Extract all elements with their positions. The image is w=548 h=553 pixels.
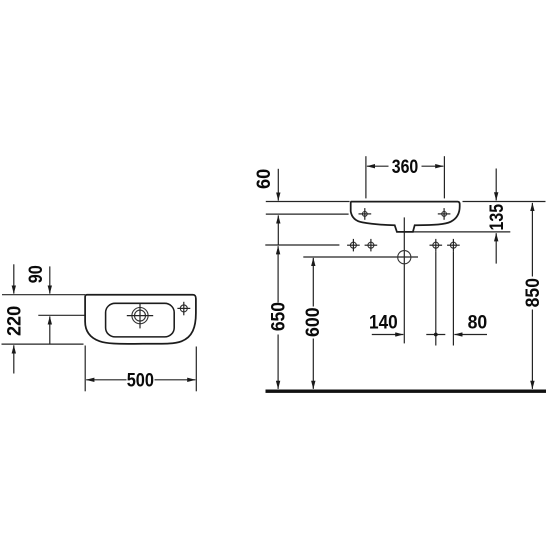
svg-text:850: 850 — [523, 278, 544, 307]
plan view side hole crosshair — [177, 302, 190, 316]
dim 140/80 joint dot — [434, 333, 438, 337]
label 220 — [4, 306, 25, 336]
front view: extension line at mounting hole level — [265, 244, 339, 246]
dim 140/80 joint stub — [426, 334, 445, 336]
dim 220 upper leg — [13, 264, 15, 293]
dim 500 right extension line — [195, 347, 197, 392]
label 135 — [487, 204, 508, 231]
dim 600 upper arrow — [312, 258, 314, 307]
dim 500 left arrow — [86, 379, 126, 381]
front view: extension line at drain level — [303, 256, 418, 258]
plan view inner basin — [106, 303, 175, 337]
dim 650 lower arrow — [277, 335, 279, 389]
svg-text:220: 220 — [4, 306, 25, 336]
dim 60 lower leg — [277, 215, 279, 244]
dim 850 upper arrow — [531, 203, 533, 277]
label 850 — [523, 278, 544, 307]
right hole pair extension line 2 — [452, 252, 454, 346]
svg-text:60: 60 — [254, 169, 275, 189]
dim 600 lower arrow — [312, 339, 314, 389]
dim 60 upper leg — [277, 169, 279, 201]
mounting hole B — [365, 239, 378, 252]
front view: extension line at overflow bottom level — [413, 231, 510, 233]
front view: extension line at deck level left — [266, 213, 349, 215]
dim 135 lower leg — [495, 233, 497, 263]
label 60 — [254, 169, 275, 189]
dim 850 lower arrow — [531, 310, 533, 389]
dim 90 upper leg — [49, 266, 51, 293]
svg-text:140: 140 — [369, 313, 398, 334]
mounting hole D — [447, 239, 460, 252]
front view washbasin profile — [351, 202, 460, 232]
plan view: extension line at faucet hole level — [38, 314, 85, 316]
plan view faucet hole outer circle — [132, 308, 148, 324]
label 650 — [268, 302, 289, 331]
dim 360 left extension line — [365, 156, 367, 198]
svg-text:360: 360 — [392, 157, 419, 178]
drain circle — [398, 251, 411, 264]
svg-text:135: 135 — [487, 204, 508, 231]
front view: extension line right of rim top — [463, 201, 546, 203]
dim 360 left arrow — [367, 165, 389, 167]
front view left fixing crosshair — [359, 208, 372, 220]
svg-text:650: 650 — [268, 302, 289, 331]
mounting hole A — [347, 239, 360, 252]
plan view: extension line at top edge level — [2, 294, 85, 296]
dim 500 right arrow — [155, 379, 196, 381]
front view right fixing crosshair — [438, 208, 451, 220]
dim 360 right extension line — [443, 156, 445, 198]
plan view side hole circle — [180, 305, 187, 312]
plan view: extension line at bottom edge level — [2, 343, 84, 345]
plan view faucet hole inner circle — [135, 310, 146, 321]
label 90 — [26, 265, 47, 283]
svg-text:80: 80 — [468, 313, 488, 334]
dim 500 left extension line — [84, 346, 86, 392]
dim 360 right arrow — [422, 165, 444, 167]
dim 220 lower leg — [13, 345, 15, 373]
dim 90 lower leg — [49, 316, 51, 344]
label 600 — [303, 307, 324, 337]
dim 80 arrow — [454, 334, 487, 336]
svg-text:500: 500 — [127, 370, 154, 391]
svg-text:90: 90 — [26, 265, 47, 283]
floor line — [266, 390, 547, 393]
drain centre extension line — [403, 217, 405, 343]
plan view washbasin outline — [85, 295, 196, 344]
dim 650 upper arrow — [277, 246, 279, 302]
mounting hole C — [430, 239, 443, 252]
plan view faucet hole crosshair — [127, 304, 153, 329]
right hole pair extension line 1 — [435, 252, 437, 346]
dim 135 upper leg — [495, 169, 497, 201]
front view: extension line left of rim top — [266, 201, 350, 203]
dim 140 arrow — [372, 334, 404, 336]
svg-text:600: 600 — [303, 307, 324, 337]
